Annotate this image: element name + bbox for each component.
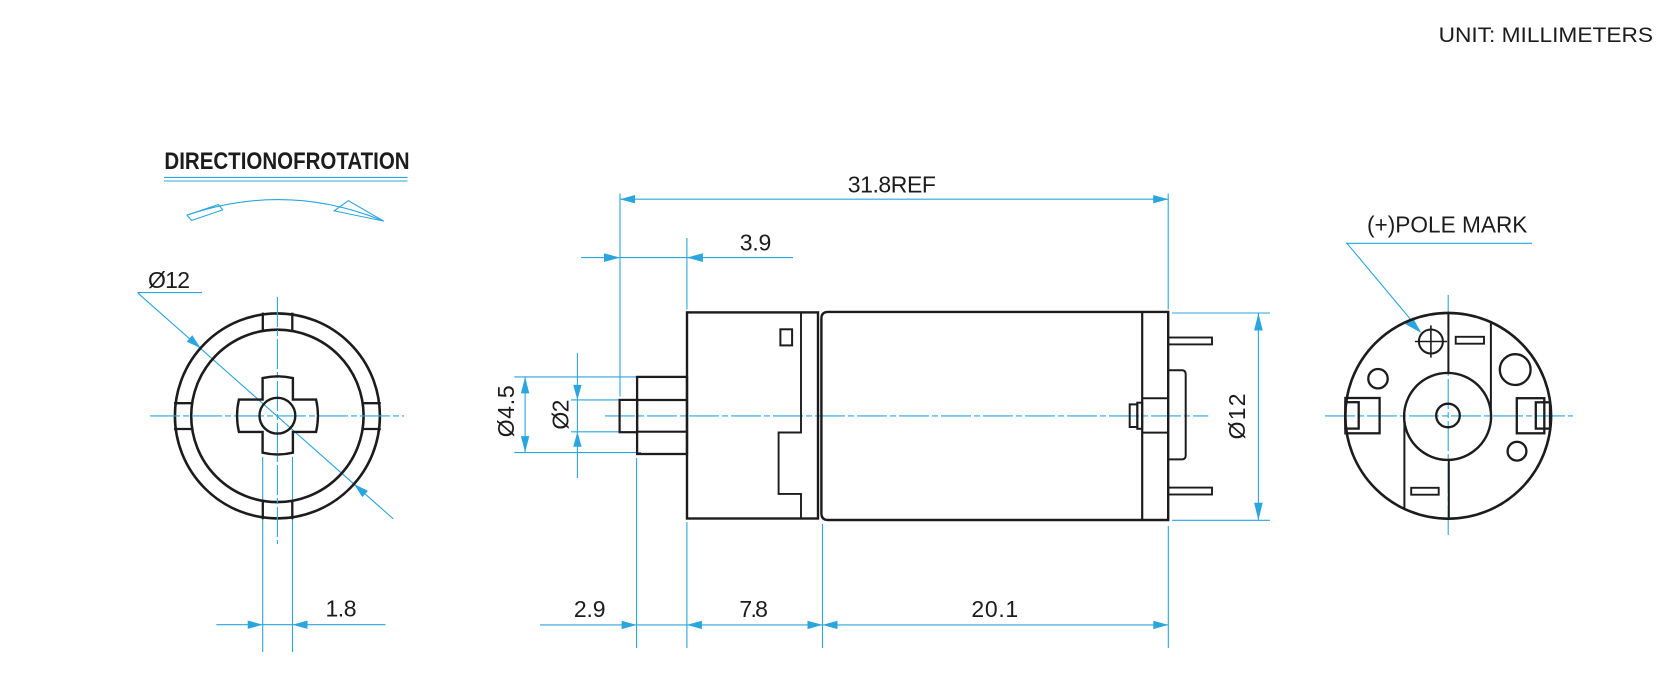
dimension line 31.8REF	[620, 198, 1168, 200]
svg-text:3.9: 3.9	[740, 229, 772, 255]
svg-text:Ø4.5: Ø4.5	[493, 385, 519, 437]
diameter dimension diagonal line front view	[138, 293, 393, 519]
rotation arc right open arrowhead	[334, 201, 384, 221]
left mounting tab inner	[1345, 402, 1358, 428]
extension line motor rear face bottom	[1167, 526, 1169, 648]
extension line motor rear face top	[1167, 194, 1169, 310]
rear shaft hole	[1436, 404, 1460, 428]
pole mark leader underline	[1346, 242, 1532, 244]
front view centerline vertical	[276, 297, 278, 544]
pole mark leader arrow	[1405, 318, 1421, 333]
extension line shaft tip	[619, 194, 621, 397]
brush card chord right	[1490, 322, 1492, 412]
gearbox housing	[687, 312, 818, 518]
svg-text:2.9: 2.9	[574, 596, 606, 622]
svg-text:Ø2: Ø2	[548, 400, 574, 430]
svg-text:7.8: 7.8	[739, 596, 768, 622]
motor body	[821, 312, 1168, 520]
endcap bearing recess lines	[1142, 397, 1168, 399]
shaft hub collar	[637, 377, 687, 454]
gearbox parting line with step	[779, 312, 801, 518]
diameter arrow lower-right	[354, 484, 368, 497]
brush card chord left	[1403, 422, 1405, 509]
leader shelf for front-view diameter label	[138, 292, 203, 294]
ring partition bottom	[262, 500, 264, 519]
rear view centerline vertical	[1447, 295, 1449, 537]
shaft center circle front view	[260, 398, 296, 434]
extension line motor front face bottom	[822, 524, 824, 648]
dimension line 3.9	[581, 257, 687, 259]
right mounting tab inner	[1536, 402, 1550, 428]
rotation direction arc	[189, 200, 384, 222]
extension line gearbox front face bottom	[686, 522, 688, 648]
gearbox vent square	[780, 329, 792, 345]
positive pole mark crossed circle	[1419, 330, 1443, 354]
rotation arc left open marker	[187, 205, 223, 221]
pole mark leader line	[1347, 243, 1413, 322]
terminal top	[1168, 338, 1212, 345]
terminal bottom	[1168, 488, 1212, 495]
front view inner ring circle	[191, 330, 363, 502]
rear hole upper right	[1500, 354, 1531, 385]
front view centerline horizontal	[150, 415, 404, 417]
extension line gearbox front face top	[686, 238, 688, 310]
extension line hub front	[636, 458, 638, 648]
svg-text:20.1: 20.1	[971, 596, 1018, 622]
arrow 1.8 right	[293, 621, 308, 629]
ring partition right	[363, 402, 381, 404]
extension line slot width right	[292, 457, 294, 652]
dimension line 1.8	[216, 624, 292, 626]
rear bearing circle	[1404, 373, 1491, 460]
svg-text:31.8REF: 31.8REF	[848, 172, 936, 198]
ring partition left	[174, 402, 192, 404]
front view outer circle	[175, 313, 380, 518]
svg-text:DIRECTIONOFROTATION: DIRECTIONOFROTATION	[164, 148, 409, 175]
svg-text:UNIT: MILLIMETERS: UNIT: MILLIMETERS	[1439, 23, 1653, 47]
dimension line dia 2	[576, 353, 578, 478]
diameter arrow upper-left	[187, 335, 201, 348]
rear hole left	[1368, 369, 1387, 388]
motor endcap line	[1141, 312, 1143, 520]
svg-text:1.8: 1.8	[326, 596, 357, 622]
rear view centerline horizontal	[1325, 415, 1573, 417]
rear slot top	[1456, 337, 1484, 344]
brush card edge bottom vertical	[1448, 460, 1450, 520]
title underline double rule	[164, 176, 408, 178]
rear slot bottom	[1411, 488, 1439, 495]
dimension line dia 12 side view	[1257, 313, 1259, 520]
rear shaft boss	[1137, 403, 1142, 429]
shaft through hub lines	[637, 399, 687, 401]
rear hole lower right	[1508, 442, 1527, 461]
svg-text:Ø12: Ø12	[148, 267, 190, 293]
bottom dimension line 2.9 / 7.8 / 20.1	[540, 624, 1168, 626]
svg-text:Ø12: Ø12	[1224, 393, 1250, 439]
side view centerline	[605, 415, 1208, 417]
rear brush cap bump	[1168, 370, 1186, 459]
rear view outer circle	[1345, 313, 1551, 519]
ring partition top	[262, 313, 264, 332]
extension line slot width left	[262, 457, 264, 652]
brush card edge top vertical	[1447, 313, 1449, 374]
arrow 1.8 left	[248, 621, 263, 629]
output shaft tip	[620, 400, 638, 432]
shaft cross slot	[237, 376, 318, 454]
svg-text:(+)POLE MARK: (+)POLE MARK	[1367, 211, 1528, 237]
right mounting tab outer	[1517, 398, 1545, 433]
dimension line dia 4.5	[524, 377, 526, 453]
left mounting tab outer	[1345, 398, 1379, 433]
